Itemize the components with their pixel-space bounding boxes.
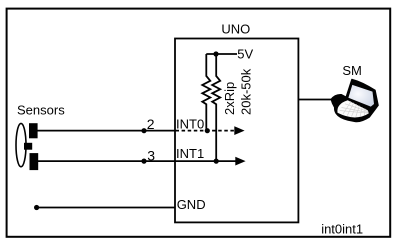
node pin 3 xyxy=(141,159,146,164)
resistor R1 left (pull-up to INT0) xyxy=(202,54,210,131)
node GND endpoint xyxy=(34,205,39,210)
junction INT0 / R1 xyxy=(205,128,210,133)
wire 5V xyxy=(206,53,237,55)
laptop hinge chain band xyxy=(349,99,368,108)
svg-text:int0int1: int0int1 xyxy=(321,222,363,237)
wire GND xyxy=(37,207,175,209)
wire INT0 from sensor xyxy=(38,130,176,132)
dashed signal arrow INT0 xyxy=(176,130,235,132)
svg-text:SM: SM xyxy=(342,63,362,78)
svg-text:20k-50k: 20k-50k xyxy=(239,68,254,115)
node pin 2 xyxy=(141,128,146,133)
wire INT1 from sensor xyxy=(38,160,236,162)
laptop screen xyxy=(348,85,374,107)
svg-text:UNO: UNO xyxy=(221,22,250,37)
junction INT1 / R2 xyxy=(214,159,219,164)
laptop key grid xyxy=(340,101,369,117)
svg-text:INT0: INT0 xyxy=(176,116,204,131)
svg-text:5V: 5V xyxy=(237,47,253,62)
wire UNO to SM xyxy=(298,99,332,101)
svg-text:GND: GND xyxy=(177,197,206,212)
svg-text:INT1: INT1 xyxy=(176,146,204,161)
svg-text:2: 2 xyxy=(147,116,155,132)
sensor contact top (pin 2) xyxy=(29,123,38,138)
laptop black silhouette (lid + base + swoosh tail) xyxy=(331,79,378,122)
node 5V junction xyxy=(213,51,218,56)
sensor contact bottom (pin 3) xyxy=(30,153,39,170)
laptop keyboard xyxy=(337,100,368,117)
sensor contact middle xyxy=(24,143,32,150)
sensor body ellipse xyxy=(16,123,26,166)
computer SM laptop icon xyxy=(331,79,378,122)
svg-text:Sensors: Sensors xyxy=(17,103,65,118)
component box UNO xyxy=(175,39,298,223)
svg-text:3: 3 xyxy=(147,147,155,163)
signal arrow INT1 xyxy=(235,157,245,166)
resistor R2 right (pull-up to INT1) xyxy=(212,54,220,161)
svg-text:2xRip: 2xRip xyxy=(222,82,237,115)
